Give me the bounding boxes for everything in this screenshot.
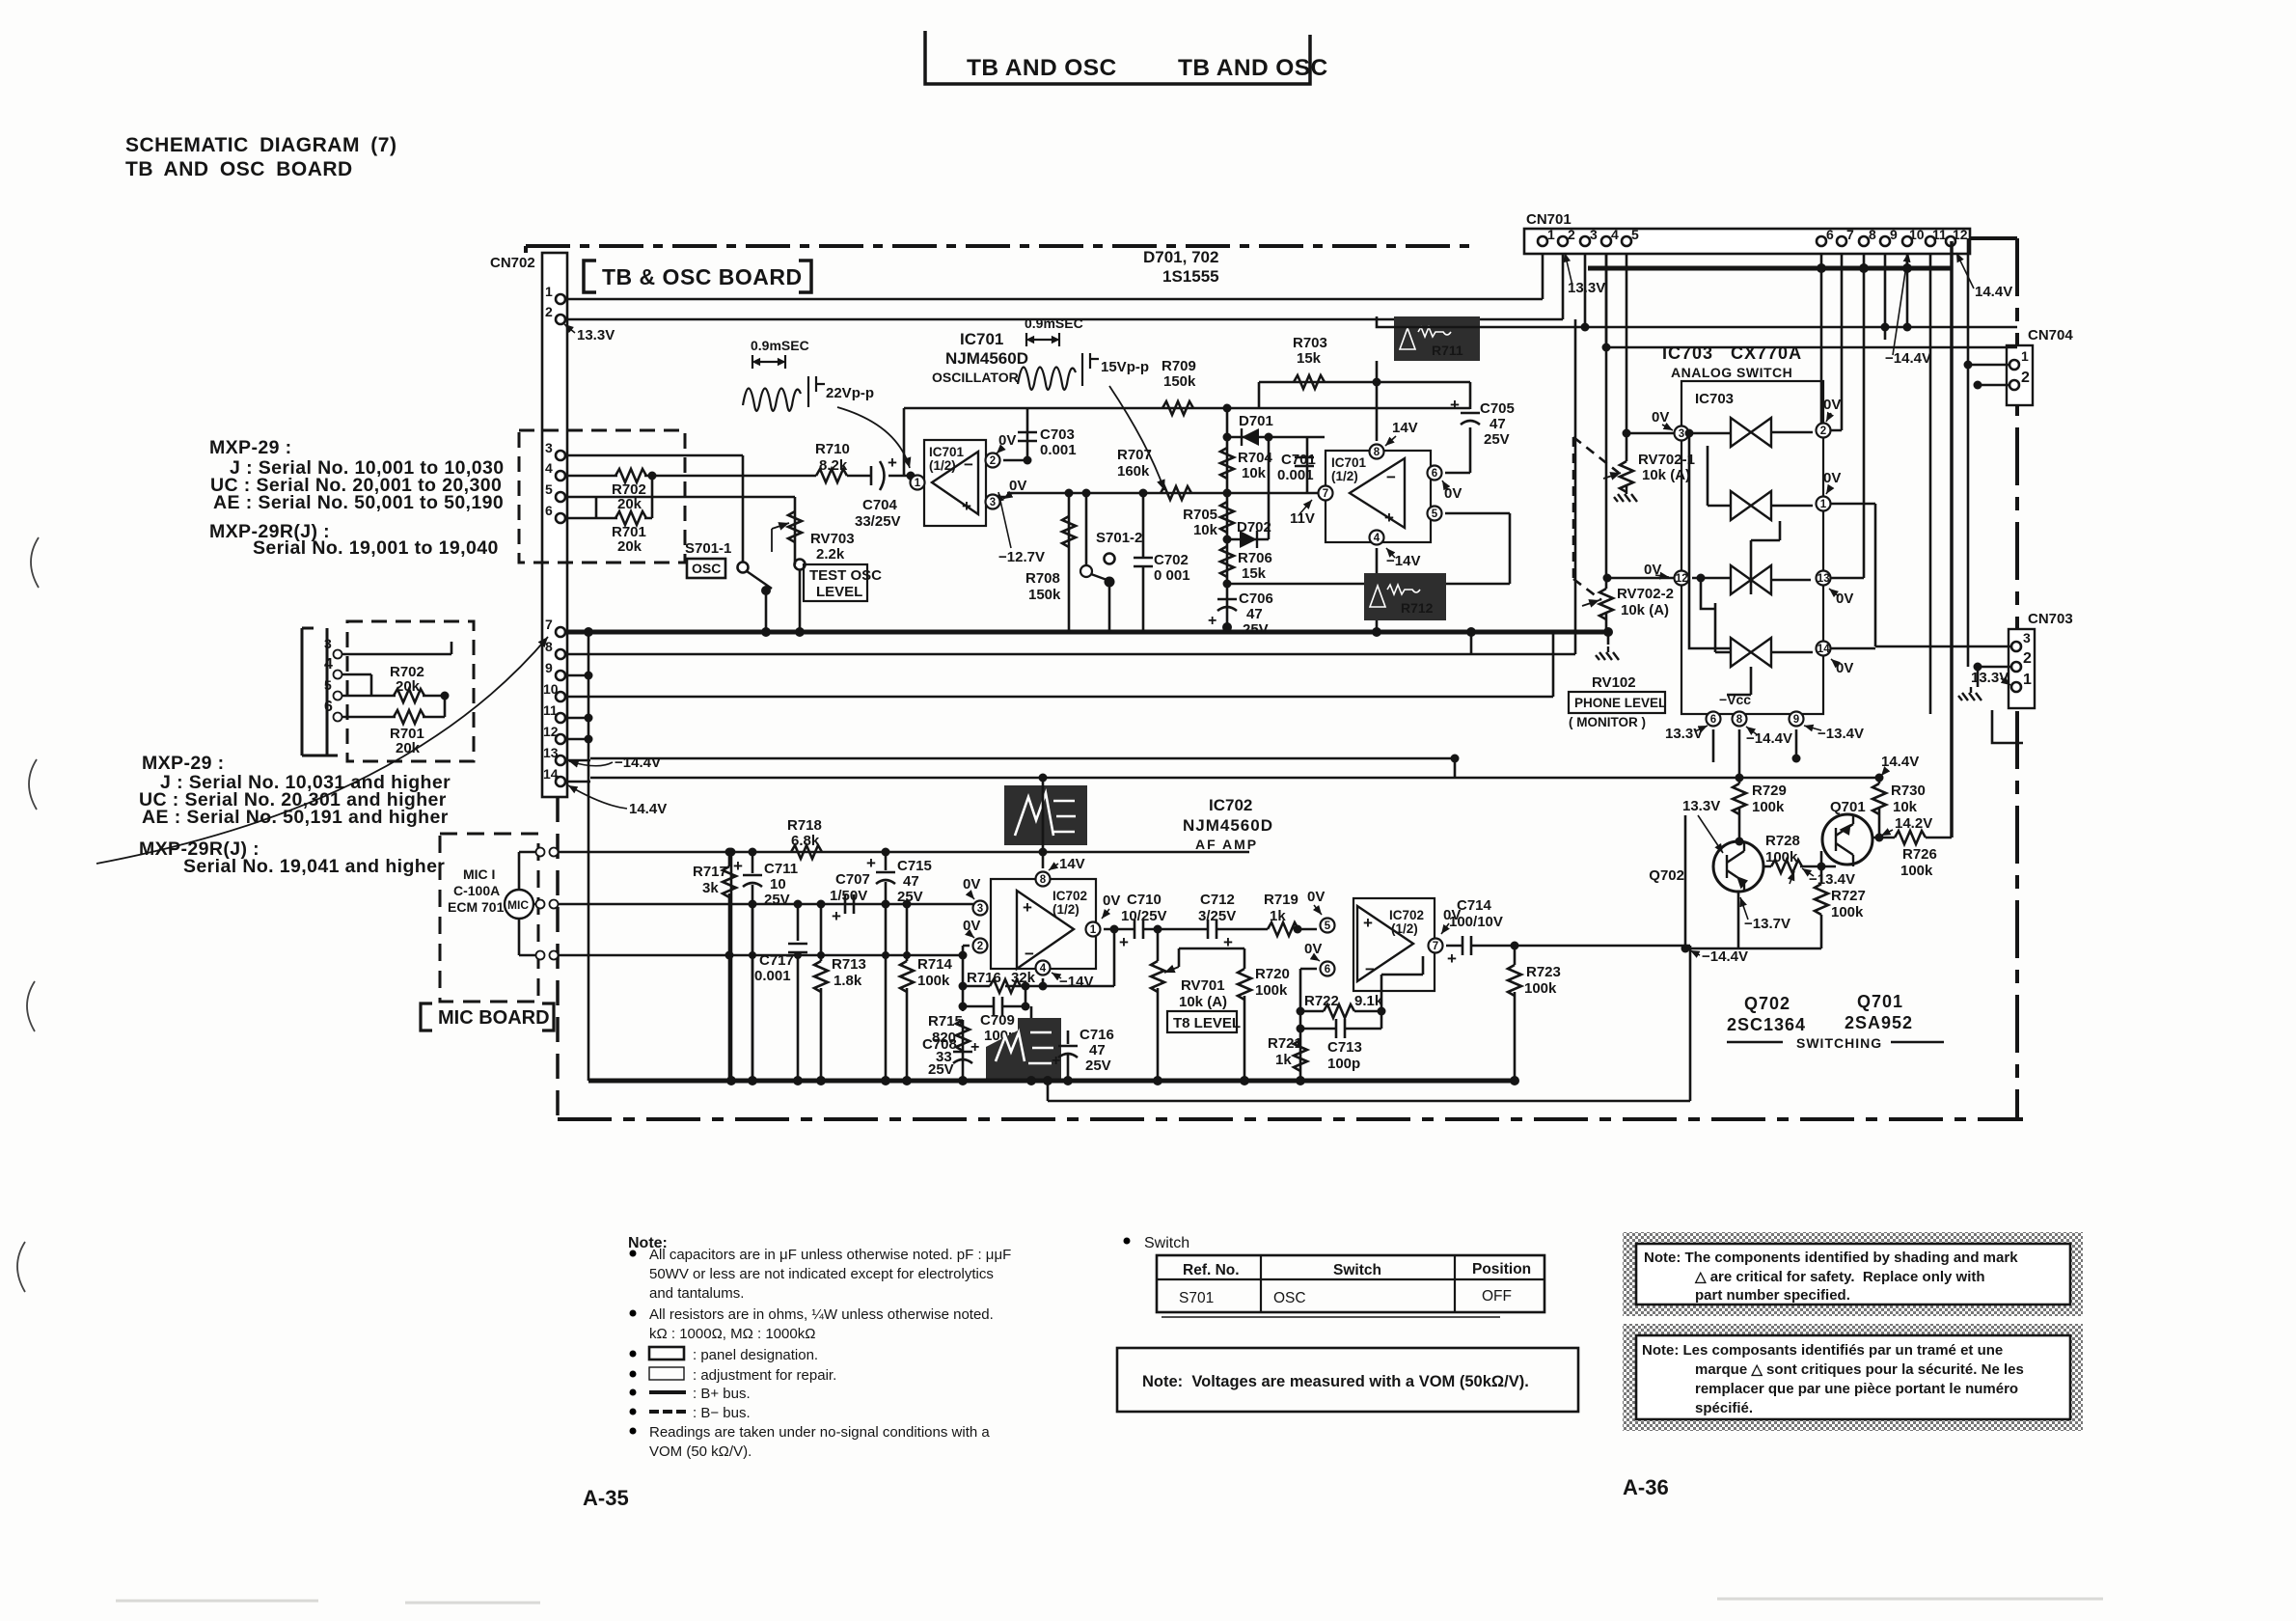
svg-text:R728: R728 xyxy=(1765,833,1800,849)
svg-text:100k: 100k xyxy=(1831,904,1864,920)
svg-text:25V: 25V xyxy=(764,892,790,908)
svg-text:25V: 25V xyxy=(1484,431,1510,448)
svg-text:Note: Voltages are measured w: Note: Voltages are measured with a VOM (… xyxy=(1142,1373,1529,1390)
svg-text:5: 5 xyxy=(324,677,332,693)
svg-text:7: 7 xyxy=(1846,227,1854,242)
svg-text:4: 4 xyxy=(545,460,553,476)
svg-text:+: + xyxy=(1363,914,1373,932)
svg-text:0.001: 0.001 xyxy=(754,968,791,984)
svg-text:4: 4 xyxy=(1611,227,1619,242)
svg-text:−13.4V: −13.4V xyxy=(1818,726,1864,742)
svg-text:+: + xyxy=(1450,396,1460,414)
svg-text:1k: 1k xyxy=(1275,1052,1292,1068)
svg-text:9: 9 xyxy=(545,660,553,675)
svg-text:10k (A): 10k (A) xyxy=(1179,994,1227,1010)
svg-text:14V: 14V xyxy=(1059,856,1085,872)
svg-text:20k: 20k xyxy=(396,678,421,695)
svg-text:+: + xyxy=(970,1039,979,1056)
svg-text:0.9mSEC: 0.9mSEC xyxy=(751,338,809,353)
svg-text:S701: S701 xyxy=(1179,1290,1214,1306)
svg-text:6: 6 xyxy=(1710,714,1716,726)
svg-text:R729: R729 xyxy=(1752,783,1787,799)
svg-text:0V: 0V xyxy=(1304,941,1322,957)
svg-text:IC701: IC701 xyxy=(960,330,1003,348)
svg-text:S701-1: S701-1 xyxy=(685,540,731,557)
svg-text:VOM (50 kΩ/V).: VOM (50 kΩ/V). xyxy=(649,1443,752,1460)
svg-text:12: 12 xyxy=(1676,573,1688,585)
svg-text:−14.4V: −14.4V xyxy=(1702,948,1748,965)
svg-text:6: 6 xyxy=(545,503,553,518)
svg-text:11V: 11V xyxy=(1290,510,1315,527)
svg-text:1.8k: 1.8k xyxy=(834,973,862,989)
svg-text:100k: 100k xyxy=(1900,863,1933,879)
svg-text:C705: C705 xyxy=(1480,400,1515,417)
svg-text:+: + xyxy=(1208,613,1216,629)
svg-text:+: + xyxy=(888,453,897,472)
svg-text:RV703: RV703 xyxy=(810,531,855,547)
svg-text:2: 2 xyxy=(2023,650,2032,667)
svg-text:0V: 0V xyxy=(1103,893,1120,909)
svg-text:0V: 0V xyxy=(1836,660,1853,676)
svg-text:MXP-29 :: MXP-29 : xyxy=(209,437,292,458)
svg-text:−Vcc: −Vcc xyxy=(1719,692,1751,707)
svg-text:−12.7V: −12.7V xyxy=(998,549,1045,565)
svg-text:TB AND OSC: TB AND OSC xyxy=(967,55,1117,81)
svg-text:15k: 15k xyxy=(1297,350,1322,367)
svg-text:2: 2 xyxy=(1568,227,1575,242)
svg-text:+: + xyxy=(733,857,743,875)
svg-text:3: 3 xyxy=(977,903,983,915)
svg-text:3: 3 xyxy=(1679,428,1684,440)
svg-text:(1/2): (1/2) xyxy=(929,458,956,473)
svg-text:1/50V: 1/50V xyxy=(830,888,867,904)
svg-text:R715: R715 xyxy=(928,1013,963,1030)
svg-text:+: + xyxy=(1384,508,1394,527)
svg-text:14V: 14V xyxy=(1392,420,1418,436)
svg-text:25V: 25V xyxy=(1085,1058,1111,1074)
svg-text:10: 10 xyxy=(770,876,786,893)
svg-text:7: 7 xyxy=(1323,488,1328,500)
svg-text:MXP-29 :: MXP-29 : xyxy=(142,753,225,774)
svg-text:14.2V: 14.2V xyxy=(1895,815,1932,832)
svg-text:25V: 25V xyxy=(928,1061,954,1078)
svg-text:5: 5 xyxy=(545,481,553,497)
svg-text:−14.4V: −14.4V xyxy=(615,755,661,771)
svg-text:13: 13 xyxy=(1818,573,1830,585)
svg-text:+: + xyxy=(1052,1053,1060,1069)
svg-text:−: − xyxy=(964,455,973,474)
svg-text:Serial No. 19,001 to 19,040: Serial No. 19,001 to 19,040 xyxy=(253,537,499,559)
svg-text:R710: R710 xyxy=(815,441,850,457)
svg-text:CN702: CN702 xyxy=(490,255,535,271)
svg-text:TB AND OSC: TB AND OSC xyxy=(1178,55,1328,81)
svg-text:RV702-2: RV702-2 xyxy=(1617,586,1674,602)
svg-text:NJM4560D: NJM4560D xyxy=(945,349,1028,368)
svg-text:AE : Serial No. 50,001 to 50,1: AE : Serial No. 50,001 to 50,190 xyxy=(213,492,504,513)
svg-text:1: 1 xyxy=(545,284,553,299)
svg-text:47: 47 xyxy=(1246,606,1263,622)
svg-text:C-100A: C-100A xyxy=(453,883,500,898)
svg-text:100k: 100k xyxy=(917,973,950,989)
svg-text:100k: 100k xyxy=(1765,849,1798,865)
svg-text:13.3V: 13.3V xyxy=(1665,726,1703,742)
svg-text:C714: C714 xyxy=(1457,897,1492,914)
svg-text:Q701: Q701 xyxy=(1857,992,1903,1011)
svg-text:CN704: CN704 xyxy=(2028,327,2073,343)
svg-text:LEVEL: LEVEL xyxy=(816,584,862,600)
svg-text:−14.4V: −14.4V xyxy=(1746,730,1792,747)
svg-text:RV701: RV701 xyxy=(1181,977,1225,994)
svg-text:R713: R713 xyxy=(832,956,866,973)
svg-text:R717: R717 xyxy=(693,864,727,880)
svg-text:Ref. No.: Ref. No. xyxy=(1183,1262,1240,1278)
svg-text:3k: 3k xyxy=(702,880,719,896)
svg-text:R726: R726 xyxy=(1902,846,1937,863)
svg-text:1: 1 xyxy=(2021,348,2029,364)
svg-text:TB & OSC BOARD: TB & OSC BOARD xyxy=(602,264,803,289)
svg-text:D702: D702 xyxy=(1237,519,1271,536)
svg-text:4: 4 xyxy=(1040,963,1047,975)
svg-text:20k: 20k xyxy=(617,538,642,555)
svg-text:8: 8 xyxy=(1374,447,1380,458)
svg-text:C702: C702 xyxy=(1154,552,1189,568)
svg-text:2SC1364: 2SC1364 xyxy=(1727,1015,1806,1034)
svg-text:+: + xyxy=(1447,949,1457,968)
svg-text:0V: 0V xyxy=(1652,409,1669,426)
svg-text:2SA952: 2SA952 xyxy=(1845,1013,1913,1032)
svg-text:IC702: IC702 xyxy=(1209,796,1252,814)
svg-text:0.9mSEC: 0.9mSEC xyxy=(1025,316,1083,331)
svg-text:15k: 15k xyxy=(1242,565,1267,582)
svg-text:R711: R711 xyxy=(1432,343,1463,358)
svg-text:Serial No. 19,041 and higher: Serial No. 19,041 and higher xyxy=(183,856,445,877)
svg-text:R720: R720 xyxy=(1255,966,1290,982)
svg-text:−14V: −14V xyxy=(1386,553,1420,569)
svg-text:R723: R723 xyxy=(1526,964,1561,980)
svg-text:All capacitors are in μF unles: All capacitors are in μF unless otherwis… xyxy=(649,1247,1011,1263)
svg-text:C703: C703 xyxy=(1040,426,1075,443)
svg-text:6: 6 xyxy=(324,699,333,715)
svg-text:100k: 100k xyxy=(1524,980,1557,997)
svg-text:7: 7 xyxy=(1433,941,1438,952)
svg-text:3: 3 xyxy=(545,440,553,455)
svg-text:5: 5 xyxy=(1325,920,1331,932)
svg-text:C711: C711 xyxy=(764,861,798,877)
svg-text:9: 9 xyxy=(1793,714,1799,726)
svg-text:−13.7V: −13.7V xyxy=(1744,916,1790,932)
svg-text:33/25V: 33/25V xyxy=(855,513,901,530)
svg-text:3: 3 xyxy=(2023,630,2031,646)
svg-text:SCHEMATIC DIAGRAM (7): SCHEMATIC DIAGRAM (7) xyxy=(125,134,396,156)
svg-text:20k: 20k xyxy=(617,496,642,512)
svg-text:R709: R709 xyxy=(1162,358,1196,374)
svg-text:A-35: A-35 xyxy=(583,1486,629,1510)
svg-text:CN701: CN701 xyxy=(1526,211,1572,228)
svg-text:10k (A): 10k (A) xyxy=(1621,602,1669,618)
svg-text:IC702: IC702 xyxy=(1052,889,1087,903)
svg-text:R703: R703 xyxy=(1293,335,1327,351)
svg-text:2.2k: 2.2k xyxy=(816,546,845,563)
svg-text:20k: 20k xyxy=(396,740,421,756)
svg-text:T8 LEVEL: T8 LEVEL xyxy=(1173,1015,1241,1031)
svg-text:14.4V: 14.4V xyxy=(629,801,667,817)
svg-text:12: 12 xyxy=(1953,227,1968,242)
svg-text:10k (A): 10k (A) xyxy=(1642,467,1690,483)
svg-text:R704: R704 xyxy=(1238,450,1273,466)
svg-text:1: 1 xyxy=(1547,227,1555,242)
svg-text:C716: C716 xyxy=(1080,1027,1114,1043)
svg-text:R714: R714 xyxy=(917,956,953,973)
svg-text:OSCILLATOR: OSCILLATOR xyxy=(932,370,1019,385)
svg-text:10: 10 xyxy=(1909,227,1925,242)
svg-text:TB AND OSC BOARD: TB AND OSC BOARD xyxy=(125,158,353,180)
svg-text:0 001: 0 001 xyxy=(1154,567,1190,584)
svg-text:1: 1 xyxy=(915,478,921,489)
svg-text:0V: 0V xyxy=(1836,591,1853,607)
svg-text:6.8k: 6.8k xyxy=(791,833,820,849)
svg-text:AF AMP: AF AMP xyxy=(1195,837,1258,852)
svg-text:0V: 0V xyxy=(998,432,1016,449)
svg-text:1S1555: 1S1555 xyxy=(1162,267,1219,286)
svg-text:C709: C709 xyxy=(980,1012,1015,1029)
svg-text:0V: 0V xyxy=(1823,397,1841,413)
svg-text:5: 5 xyxy=(1631,227,1639,242)
svg-text:kΩ : 1000Ω, MΩ : 1000kΩ: kΩ : 1000Ω, MΩ : 1000kΩ xyxy=(649,1326,815,1342)
svg-text:−: − xyxy=(1025,945,1034,963)
svg-text:spécifié.: spécifié. xyxy=(1695,1400,1753,1416)
svg-text:D701, 702: D701, 702 xyxy=(1143,248,1218,266)
svg-text:(1/2): (1/2) xyxy=(1052,902,1080,917)
svg-text:(1/2): (1/2) xyxy=(1391,921,1418,936)
svg-text:R707: R707 xyxy=(1117,447,1152,463)
svg-text:14.4V: 14.4V xyxy=(1975,284,2012,300)
svg-text:2: 2 xyxy=(545,304,553,319)
svg-text:150k: 150k xyxy=(1163,373,1196,390)
svg-text:MIC: MIC xyxy=(507,898,529,912)
svg-text:: panel designation.: : panel designation. xyxy=(693,1347,818,1363)
svg-text:2: 2 xyxy=(1820,426,1826,437)
svg-text:S701-2: S701-2 xyxy=(1096,530,1142,546)
svg-text:0V: 0V xyxy=(1307,889,1325,905)
svg-text:(1/2): (1/2) xyxy=(1331,469,1358,483)
svg-text:14.4V: 14.4V xyxy=(1881,754,1919,770)
svg-text:0.001: 0.001 xyxy=(1277,467,1314,483)
svg-text:IC701: IC701 xyxy=(929,445,965,459)
svg-text:0V: 0V xyxy=(1823,470,1841,486)
svg-text:+: + xyxy=(1023,898,1032,917)
svg-text:8.2k: 8.2k xyxy=(819,457,848,474)
svg-text:8: 8 xyxy=(1040,874,1047,886)
svg-text:remplacer que par une pièce po: remplacer que par une pièce portant le n… xyxy=(1695,1381,2018,1397)
svg-text:3: 3 xyxy=(1590,227,1598,242)
svg-text:9: 9 xyxy=(1890,227,1898,242)
svg-text:8: 8 xyxy=(1736,714,1743,726)
svg-text:15Vp-p: 15Vp-p xyxy=(1101,359,1149,375)
svg-text:MIC I: MIC I xyxy=(463,866,495,882)
svg-text:R705: R705 xyxy=(1183,507,1217,523)
svg-text:4: 4 xyxy=(324,656,333,673)
svg-text:OFF: OFF xyxy=(1482,1288,1512,1305)
svg-text:14: 14 xyxy=(1818,644,1830,655)
svg-text:OSC: OSC xyxy=(692,561,721,576)
svg-text:100/10V: 100/10V xyxy=(1449,914,1503,930)
svg-text:10k: 10k xyxy=(1193,522,1218,538)
svg-text:3: 3 xyxy=(990,497,996,508)
svg-text:6: 6 xyxy=(1325,964,1330,975)
svg-text:0V: 0V xyxy=(963,876,980,893)
svg-text:C713: C713 xyxy=(1327,1039,1362,1056)
svg-text:Q702: Q702 xyxy=(1744,994,1790,1013)
svg-text:Switch: Switch xyxy=(1333,1262,1381,1278)
svg-text:All resistors are in ohms, ¼W: All resistors are in ohms, ¼W unless oth… xyxy=(649,1306,994,1323)
svg-text:: B+ bus.: : B+ bus. xyxy=(693,1386,751,1402)
svg-text:Q702: Q702 xyxy=(1649,867,1684,884)
svg-text:22Vp-p: 22Vp-p xyxy=(826,385,874,401)
svg-text:0V: 0V xyxy=(1009,478,1026,494)
svg-text:+: + xyxy=(962,497,971,515)
svg-text:△ are critical for safety. Re: △ are critical for safety. Replace only … xyxy=(1694,1269,1985,1285)
svg-text:C717: C717 xyxy=(759,952,794,969)
svg-text:0.001: 0.001 xyxy=(1040,442,1077,458)
svg-text:R730: R730 xyxy=(1891,783,1926,799)
svg-text:+: + xyxy=(832,907,841,925)
svg-text:2: 2 xyxy=(990,455,996,467)
svg-text:10/25V: 10/25V xyxy=(1121,908,1167,924)
svg-text:47: 47 xyxy=(1089,1042,1106,1058)
svg-text:Note: Les composants identifié: Note: Les composants identifiés par un t… xyxy=(1642,1342,2003,1359)
svg-text:100k: 100k xyxy=(1752,799,1785,815)
svg-text:2: 2 xyxy=(977,941,983,952)
svg-text:R708: R708 xyxy=(1025,570,1060,587)
svg-text:RV102: RV102 xyxy=(1592,674,1636,691)
svg-text:100k: 100k xyxy=(1255,982,1288,999)
svg-text:1: 1 xyxy=(1820,499,1827,510)
svg-text:R722: R722 xyxy=(1304,993,1339,1009)
svg-text:C701: C701 xyxy=(1281,452,1316,468)
svg-text:SWITCHING: SWITCHING xyxy=(1796,1035,1882,1051)
svg-text:25V: 25V xyxy=(1243,621,1269,638)
svg-text:−14V: −14V xyxy=(1059,974,1093,990)
svg-text:IC701: IC701 xyxy=(1331,455,1367,470)
svg-text:R727: R727 xyxy=(1831,888,1866,904)
svg-text:−14.4V: −14.4V xyxy=(1885,350,1931,367)
svg-text:PHONE LEVEL: PHONE LEVEL xyxy=(1574,696,1666,710)
svg-text:−13.4V: −13.4V xyxy=(1809,871,1855,888)
svg-text:−: − xyxy=(1386,468,1396,486)
svg-text:IC703 CX770A: IC703 CX770A xyxy=(1662,343,1802,363)
svg-text:8: 8 xyxy=(545,639,553,654)
svg-text:Position: Position xyxy=(1472,1261,1531,1278)
svg-text:A-36: A-36 xyxy=(1623,1475,1669,1499)
svg-text:3: 3 xyxy=(324,636,332,651)
svg-text:NJM4560D: NJM4560D xyxy=(1183,816,1273,835)
svg-text:5: 5 xyxy=(1432,508,1438,520)
svg-text:6: 6 xyxy=(1826,227,1834,242)
svg-text:1k: 1k xyxy=(1270,908,1286,924)
svg-text:50WV or less are not indicated: 50WV or less are not indicated except fo… xyxy=(649,1266,994,1282)
svg-text:R706: R706 xyxy=(1238,550,1272,566)
svg-text:ECM 701: ECM 701 xyxy=(448,899,505,915)
svg-text:+: + xyxy=(866,854,876,872)
svg-text:IC703: IC703 xyxy=(1695,391,1734,407)
svg-text:100p: 100p xyxy=(1327,1056,1360,1072)
svg-text:10k: 10k xyxy=(1242,465,1267,481)
svg-text:3/25V: 3/25V xyxy=(1198,908,1236,924)
svg-text:Switch: Switch xyxy=(1144,1235,1189,1251)
svg-text:RV702-1: RV702-1 xyxy=(1638,452,1695,468)
svg-text:: adjustment for repair.: : adjustment for repair. xyxy=(693,1367,836,1384)
svg-text:C712: C712 xyxy=(1200,892,1235,908)
svg-text:7: 7 xyxy=(545,617,553,632)
svg-text:C707: C707 xyxy=(835,871,870,888)
svg-text:47: 47 xyxy=(1490,416,1506,432)
svg-text:R716: R716 xyxy=(967,970,1001,986)
svg-text:8: 8 xyxy=(1869,227,1876,242)
svg-text:part number specified.: part number specified. xyxy=(1695,1287,1850,1304)
svg-text:ANALOG SWITCH: ANALOG SWITCH xyxy=(1671,365,1792,380)
svg-text:Note: The components identifie: Note: The components identified by shadi… xyxy=(1644,1250,2018,1266)
svg-text:( MONITOR ): ( MONITOR ) xyxy=(1569,715,1646,729)
svg-text:Q701: Q701 xyxy=(1830,799,1866,815)
svg-text:OSC: OSC xyxy=(1273,1290,1306,1306)
svg-text:C715: C715 xyxy=(897,858,932,874)
svg-text:: B− bus.: : B− bus. xyxy=(693,1405,751,1421)
svg-text:11: 11 xyxy=(1932,227,1947,242)
svg-text:D701: D701 xyxy=(1239,413,1273,429)
svg-text:0V: 0V xyxy=(963,918,980,934)
svg-text:13.3V: 13.3V xyxy=(1568,280,1605,296)
svg-text:C710: C710 xyxy=(1127,892,1162,908)
svg-text:+: + xyxy=(1119,933,1129,951)
svg-text:Readings are taken under no-si: Readings are taken under no-signal condi… xyxy=(649,1424,990,1441)
svg-text:C704: C704 xyxy=(862,497,898,513)
svg-text:CN703: CN703 xyxy=(2028,611,2073,627)
svg-text:1: 1 xyxy=(2023,672,2032,688)
svg-text:160k: 160k xyxy=(1117,463,1150,480)
svg-text:4: 4 xyxy=(1374,533,1380,544)
svg-text:6: 6 xyxy=(1432,468,1437,480)
svg-text:R721: R721 xyxy=(1268,1035,1302,1052)
svg-text:9.1k: 9.1k xyxy=(1354,993,1383,1009)
svg-text:AE : Serial No. 50,191 and hig: AE : Serial No. 50,191 and higher xyxy=(142,807,449,828)
svg-text:and tantalums.: and tantalums. xyxy=(649,1285,744,1302)
svg-text:10k: 10k xyxy=(1893,799,1918,815)
svg-text:47: 47 xyxy=(903,873,919,890)
svg-text:TEST OSC: TEST OSC xyxy=(809,567,882,584)
svg-text:13.3V: 13.3V xyxy=(1682,798,1720,814)
svg-text:C706: C706 xyxy=(1239,591,1273,607)
svg-text:13.3V: 13.3V xyxy=(577,327,615,343)
svg-text:R712: R712 xyxy=(1401,600,1434,616)
svg-text:IC702: IC702 xyxy=(1389,908,1424,922)
svg-text:150k: 150k xyxy=(1028,587,1061,603)
svg-text:1: 1 xyxy=(1090,924,1097,936)
svg-text:R719: R719 xyxy=(1264,892,1298,908)
svg-text:marque △ sont critiques pour l: marque △ sont critiques pour la sécurité… xyxy=(1695,1361,2024,1378)
svg-text:2: 2 xyxy=(2021,370,2030,386)
svg-text:−: − xyxy=(1365,960,1375,978)
svg-text:R718: R718 xyxy=(787,817,822,834)
svg-text:MIC BOARD: MIC BOARD xyxy=(438,1007,550,1029)
